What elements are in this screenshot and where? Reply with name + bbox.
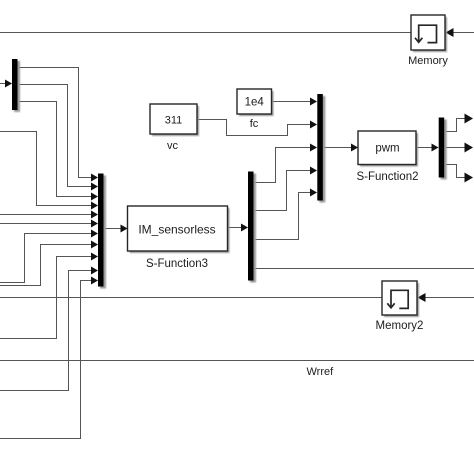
svg-text:1e4: 1e4 [245,97,265,109]
svg-text:vc: vc [167,140,179,152]
svg-text:S-Function3: S-Function3 [146,258,208,270]
svg-text:IM_sensorless: IM_sensorless [138,223,215,237]
svg-text:Wrref: Wrref [307,366,335,378]
svg-text:311: 311 [165,115,183,127]
svg-text:fc: fc [250,118,259,130]
svg-text:Memory2: Memory2 [376,320,424,332]
svg-text:pwm: pwm [375,143,399,155]
svg-text:S-Function2: S-Function2 [356,171,418,183]
svg-text:Memory: Memory [408,55,448,67]
